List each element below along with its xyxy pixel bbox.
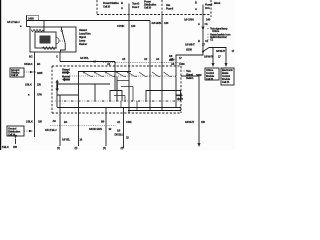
svg-text:B: B [195,1,197,5]
edge pin dots [179,107,181,109]
switch leg [61,45,66,53]
wire 3.3 PPL from flasher pin C [59,52,61,62]
svg-text:Block: Block [214,1,221,5]
wire S206 right branch riser [203,48,209,52]
svg-text:Cell 10: Cell 10 [144,5,152,9]
wire 3 PNK from Turn fuse [128,4,130,67]
svg-text:Cell 14: Cell 14 [11,73,19,77]
svg-text:Signal: Signal [79,35,86,39]
svg-text:Lamp: Lamp [79,39,86,43]
svg-text:(T): (T) [57,146,60,150]
svg-text:Power Distribu: Power Distribu [103,1,119,5]
inner plate left edge [56,84,58,107]
svg-text:2 BLK: 2 BLK [26,120,33,124]
contact c2 [94,71,104,76]
svg-text:Normal: Normal [62,75,70,79]
pin A1 CKT [117,120,132,124]
wire stub into flasher [27,26,31,28]
bullet list loads [208,27,231,42]
arrow into cluster [224,63,227,67]
switch pivot circle [61,30,63,32]
svg-text:0.8 WHT: 0.8 WHT [216,49,225,53]
contact c3 [105,71,115,76]
wire C301 down [123,108,125,149]
wire right branch horizontal [209,48,226,64]
svg-text:S205: S205 [37,71,43,75]
legend left/right arrows [177,94,183,101]
label 0.8 DK GRN 19 [89,127,112,131]
relay coil bump [56,38,59,44]
contact dots row [64,100,175,102]
svg-text:(T): (T) [75,146,78,150]
pin B C1 [198,39,209,43]
wire lamp A down [59,95,61,146]
flasher pin BC [29,55,33,59]
contact row dotted [55,100,180,102]
wire from linkage to right [175,76,176,108]
pin A C1 [198,22,208,26]
svg-text:DK BLU: DK BLU [115,133,124,137]
svg-text:140: 140 [131,24,136,28]
pin A2 [144,57,148,61]
svg-text:A: A [198,22,200,26]
svg-text:0.5 LT BLU: 0.5 LT BLU [45,128,57,132]
bottom ref T1b [75,146,78,150]
label WHT 17 (mid) [204,55,221,59]
flasher inner relay box [35,32,56,48]
svg-text:B: B [198,39,200,43]
inner plate mid rail [57,94,79,96]
label 0.8 WHT 17 (right) [216,49,235,53]
pin A3 [122,57,126,61]
label 0.8 DK BLU 15 stacked [115,129,130,140]
svg-text:Hazard: Hazard [79,28,87,32]
direction arrow on ORN wire [201,27,204,31]
bridge contact 1 [110,91,122,102]
arrow into chime module [211,63,214,67]
contact c7 [164,72,173,77]
wire G305 up arrow [15,139,17,145]
svg-text:Cell 10: Cell 10 [103,5,111,9]
label 0.8 YEL 16 [62,138,83,142]
svg-text:3 PNK: 3 PNK [117,24,125,28]
svg-text:Lamp/Turn: Lamp/Turn [79,32,91,36]
bottom bus 2 [128,110,181,112]
bridge contact 2 [146,91,181,102]
wire wht inside box [175,66,177,76]
pin A2 left [53,119,57,123]
fuse HAZ F8 [205,3,213,11]
jog stubs below row [120,101,122,107]
label fuse block [214,1,221,5]
wire pnk inside box jog [128,66,130,111]
fuse TURN-B pin A [121,6,123,10]
label 2 BLK 150 lower [26,120,42,124]
arrow ground end [197,143,200,147]
label Power Distribution Cell 10 (left) [103,1,119,9]
svg-text:CP8: CP8 [37,92,42,96]
contact c5 [139,72,148,77]
ground distribution box low [7,126,24,136]
svg-text:Fuse 8: Fuse 8 [205,3,213,7]
bottom plate bus [57,107,181,109]
svg-text:0.8 ORN: 0.8 ORN [184,17,194,21]
contact c1 [83,71,93,76]
label 0.8 BLK 150 [185,120,205,124]
label dark right mid [196,73,202,77]
svg-text:Flasher: Flasher [79,42,87,46]
label 1408 [28,16,34,20]
label 0.8 ORN [184,17,211,21]
ground distribution ref box [10,68,24,77]
svg-text:3.5 BLK: 3.5 BLK [24,62,33,66]
arrow to wire low [24,130,29,132]
solid state label block [40,36,51,44]
switch contact dot [65,43,66,44]
bottom ref T3 [121,146,124,150]
linkage dashes [58,40,65,42]
linkage dashed inside switch [63,75,175,77]
svg-text:0.8 WHT: 0.8 WHT [185,120,194,124]
fuse HAZ pin B [195,1,197,5]
svg-text:S409: S409 [196,73,202,77]
jog wire b drop [132,87,134,102]
svg-text:140: 140 [164,21,169,25]
wire lamp B2 down [105,108,107,147]
wire PPL horizontal [60,61,115,63]
pin A6 [170,57,174,61]
svg-text:0.8 WHT: 0.8 WHT [185,43,195,47]
wire grn inside box [149,66,151,111]
label 3.5 BLK [24,62,41,66]
connector C100 [26,16,28,28]
label 2 BLK 150 [25,83,41,87]
wire 3.5 BLK down from flasher [34,52,36,137]
svg-text:BC: BC [29,55,33,59]
wire haz inside box [161,66,163,111]
label S206 [186,48,192,52]
svg-text:Fuse 7: Fuse 7 [132,5,140,9]
label 0.8 WHT 17 [185,43,205,47]
hazard flasher outer box [30,27,76,52]
jog wire c drop [124,96,126,102]
wire lamp D down [116,77,118,102]
jog wire a [117,80,129,82]
label 3 PNK [117,24,136,28]
wire LT BLU feed to turn switch [27,20,151,22]
wire chime drop [212,48,214,64]
bottom ref T1 [57,146,60,150]
svg-text:3.5 LT BLU: 3.5 LT BLU [7,20,20,24]
legend up/down arrows [55,80,59,92]
bottom ref T2 [103,146,106,150]
wire S206 to switch (left branch) [176,52,203,67]
fuse HAZ pin A [195,7,197,11]
svg-text:0.8 DK GRN: 0.8 DK GRN [89,127,102,131]
flasher coil feed wire [43,21,45,33]
resistor R inside flasher [31,29,44,32]
switch pivot stub [61,27,63,30]
contact c6 [152,72,160,77]
wire out bottom right [181,76,199,143]
svg-text:1408: 1408 [28,16,34,20]
svg-text:0.8 GRN: 0.8 GRN [152,21,162,25]
fuse HAZ F8 label [166,3,174,11]
inner contact plate top [57,83,110,85]
label 0.5 LT BLU [45,128,57,132]
fuse TURN-B F7 [132,2,140,10]
bridge contact 2 right leg [180,91,182,102]
svg-text:Fuse 8: Fuse 8 [166,7,174,11]
pin A1 [107,62,111,66]
wire HAZ feed [161,15,163,66]
wire PPL drop into switch [114,62,116,91]
svg-text:0.8 YEL: 0.8 YEL [62,138,71,142]
svg-text:S206: S206 [186,48,192,52]
label a CP8 [28,92,42,96]
jog wire b [121,86,133,88]
resistor R2 flasher bottom [42,47,57,50]
label 3.3 PPL [80,56,97,64]
label 3.5 LT BLU [7,20,22,28]
wire 0.8 ORN from Haz fuse [202,5,204,52]
label Turn Signal Switch [184,69,194,80]
turn signal switch dashed box [52,66,181,113]
jog wire c [114,95,125,97]
legend hazard/normal arrows [62,68,70,82]
svg-text:Turn-B: Turn-B [132,2,139,6]
label 0.8 DK GRN [152,21,169,25]
pin A4 [156,57,160,61]
flasher pin C label [56,55,58,59]
wire lamp B down [94,84,96,101]
svg-text:140: 140 [206,17,211,21]
switch contact bar [79,72,132,85]
svg-text:C200: C200 [179,62,185,66]
svg-text:(T): (T) [121,146,124,150]
svg-text:3.3 PPL: 3.3 PPL [80,56,89,60]
contact c4 [116,71,126,76]
connector C202 dotted line [103,62,181,64]
switch arm [62,32,65,43]
svg-text:Switch: Switch [186,76,194,80]
svg-text:5 BLK: 5 BLK [2,145,9,149]
svg-text:Turn: Turn [186,69,191,73]
label 5 BLK 155 [2,145,17,149]
instrument cluster box [221,68,234,85]
pin A8 C200 [171,62,185,66]
svg-text:Hazard: Hazard [62,68,70,72]
jog stub b2 [136,101,138,110]
svg-text:2 BLK: 2 BLK [25,83,32,87]
svg-text:C: C [56,55,58,59]
svg-text:Cell 44: Cell 44 [222,80,230,84]
fuse TURN-B pin B [121,1,123,5]
connector dotted line bottom [50,125,116,127]
svg-text:Cell 76: Cell 76 [206,77,214,81]
wire corner down at x150 [149,21,151,67]
stub bus2 [128,111,130,114]
label Hazard Lamp/Turn Signal Lamp Flasher [79,28,91,46]
svg-text:(T): (T) [103,146,106,150]
splice S206 dot [202,50,204,52]
pin B4 below box [64,120,68,124]
label 0.8 WHT stacked [169,54,182,62]
scan edge artifact left border [0,0,1,150]
I/P fuse block dashed outline [97,0,211,17]
svg-text:A: A [195,7,197,11]
svg-text:0.8 WHT: 0.8 WHT [204,55,213,59]
jog wire a drop [116,81,118,102]
svg-text:B: B [121,1,123,5]
dashed arrow to splice [24,71,30,73]
svg-text:A: A [121,6,123,10]
pin B2 below box [101,120,105,124]
svg-text:10 A: 10 A [205,6,210,10]
chime module box [205,68,219,80]
svg-text:C301: C301 [126,120,132,124]
label Power Distribution Cell 10 (mid) [144,0,157,9]
label S205 [37,71,43,75]
splice S205 dot [34,71,36,73]
